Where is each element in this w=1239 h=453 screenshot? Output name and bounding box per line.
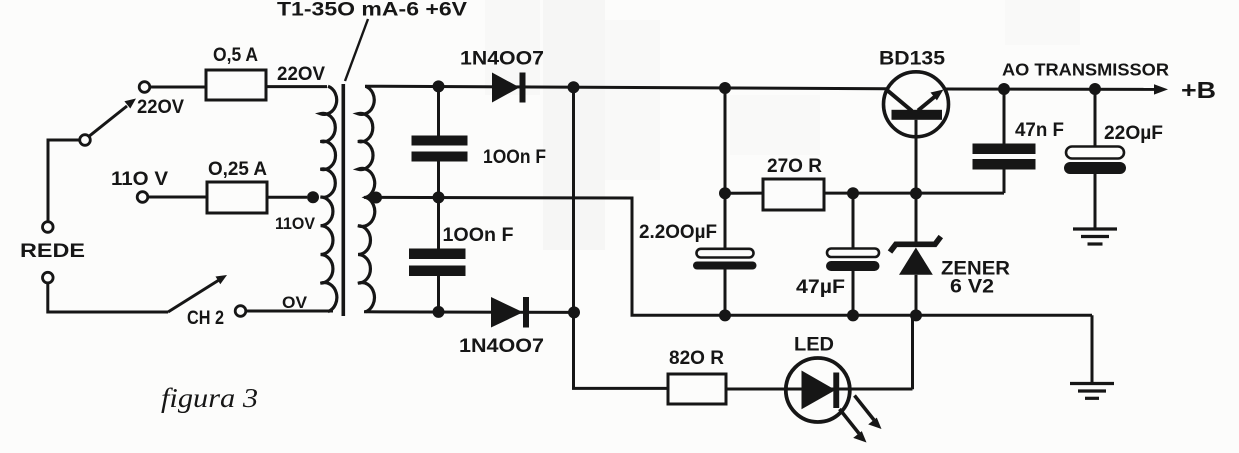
svg-text:11O V: 11O V [111,169,168,190]
svg-text:82O R: 82O R [669,348,724,369]
svg-text:REDE: REDE [20,241,85,262]
svg-text:11OV: 11OV [275,214,316,233]
svg-text:+B: +B [1181,77,1216,103]
svg-text:O,5 A: O,5 A [213,45,258,66]
svg-text:22OV: 22OV [277,64,325,85]
svg-text:BD135: BD135 [879,49,945,70]
svg-text:CH 2: CH 2 [187,308,224,329]
svg-text:1N4OO7: 1N4OO7 [460,49,544,70]
svg-text:AO TRANSMISSOR: AO TRANSMISSOR [1002,60,1169,80]
svg-text:LED: LED [794,335,834,356]
svg-text:1OOn F: 1OOn F [443,225,514,246]
svg-text:47n F: 47n F [1015,120,1064,141]
svg-text:1N4OO7: 1N4OO7 [459,336,544,357]
svg-text:O,25 A: O,25 A [208,159,267,180]
svg-text:T1-35O mA-6 +6V: T1-35O mA-6 +6V [277,0,467,21]
svg-text:OV: OV [282,293,308,312]
svg-text:2.2OOµF: 2.2OOµF [639,222,717,243]
svg-text:6 V2: 6 V2 [950,277,994,298]
svg-text:22OµF: 22OµF [1104,123,1163,144]
svg-text:47µF: 47µF [796,277,845,298]
svg-text:22OV: 22OV [137,97,184,118]
svg-text:27O R: 27O R [767,156,822,177]
svg-text:1OOn F: 1OOn F [483,147,546,168]
svg-text:figura 3: figura 3 [161,383,258,413]
